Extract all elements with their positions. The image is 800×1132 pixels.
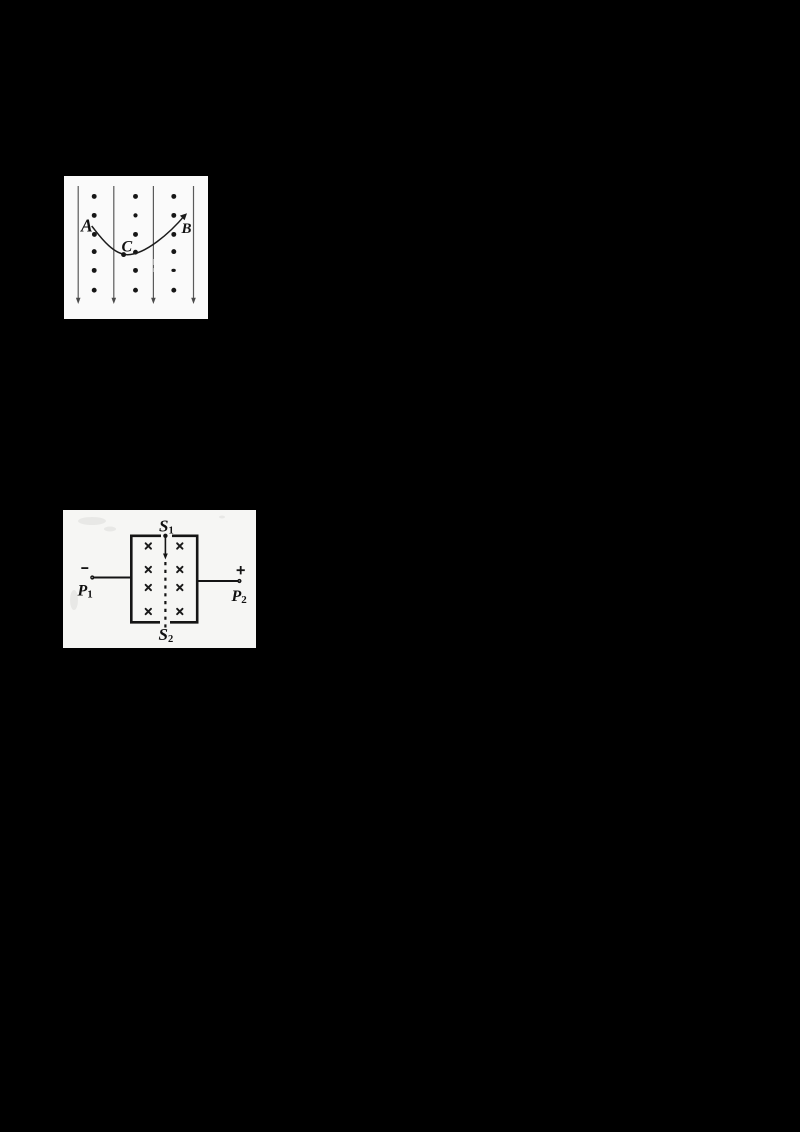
dot column 3 [171,194,176,293]
terminal P2 (ring) [237,579,241,583]
slide wire dashed segment [164,562,166,628]
field region box (with gaps top and bottom) [131,536,197,623]
terminal P1 (ring) [90,575,94,579]
diagram 1: charged particle in downward E-field (white panel) [64,176,208,319]
left lead wire [94,577,132,579]
minus sign [81,567,88,569]
dot column 1 (field out of page markers) [92,194,97,293]
slide wire solid segment with arrowhead [163,536,168,560]
plus sign [237,566,245,574]
field line 2 [112,186,117,304]
svg-text:C: C [122,239,133,256]
field line 1 [76,186,81,304]
faint smudge artifact [152,259,154,272]
trajectory A-C-B (curved path with arrowhead at B) [92,213,187,257]
svg-text:B: B [181,221,192,237]
diagram 2: region with B-field into page, terminals P1 P2 (white panel) [63,510,256,648]
field line 3 [151,186,156,304]
slide wire S1-S2: junction dot [163,534,167,538]
right lead wire [197,580,238,582]
x markers right column [177,543,182,614]
dot column 2 [133,194,138,293]
field line 4 [191,186,196,304]
svg-text:A: A [80,216,93,236]
x markers left column (B into page) [146,543,151,614]
